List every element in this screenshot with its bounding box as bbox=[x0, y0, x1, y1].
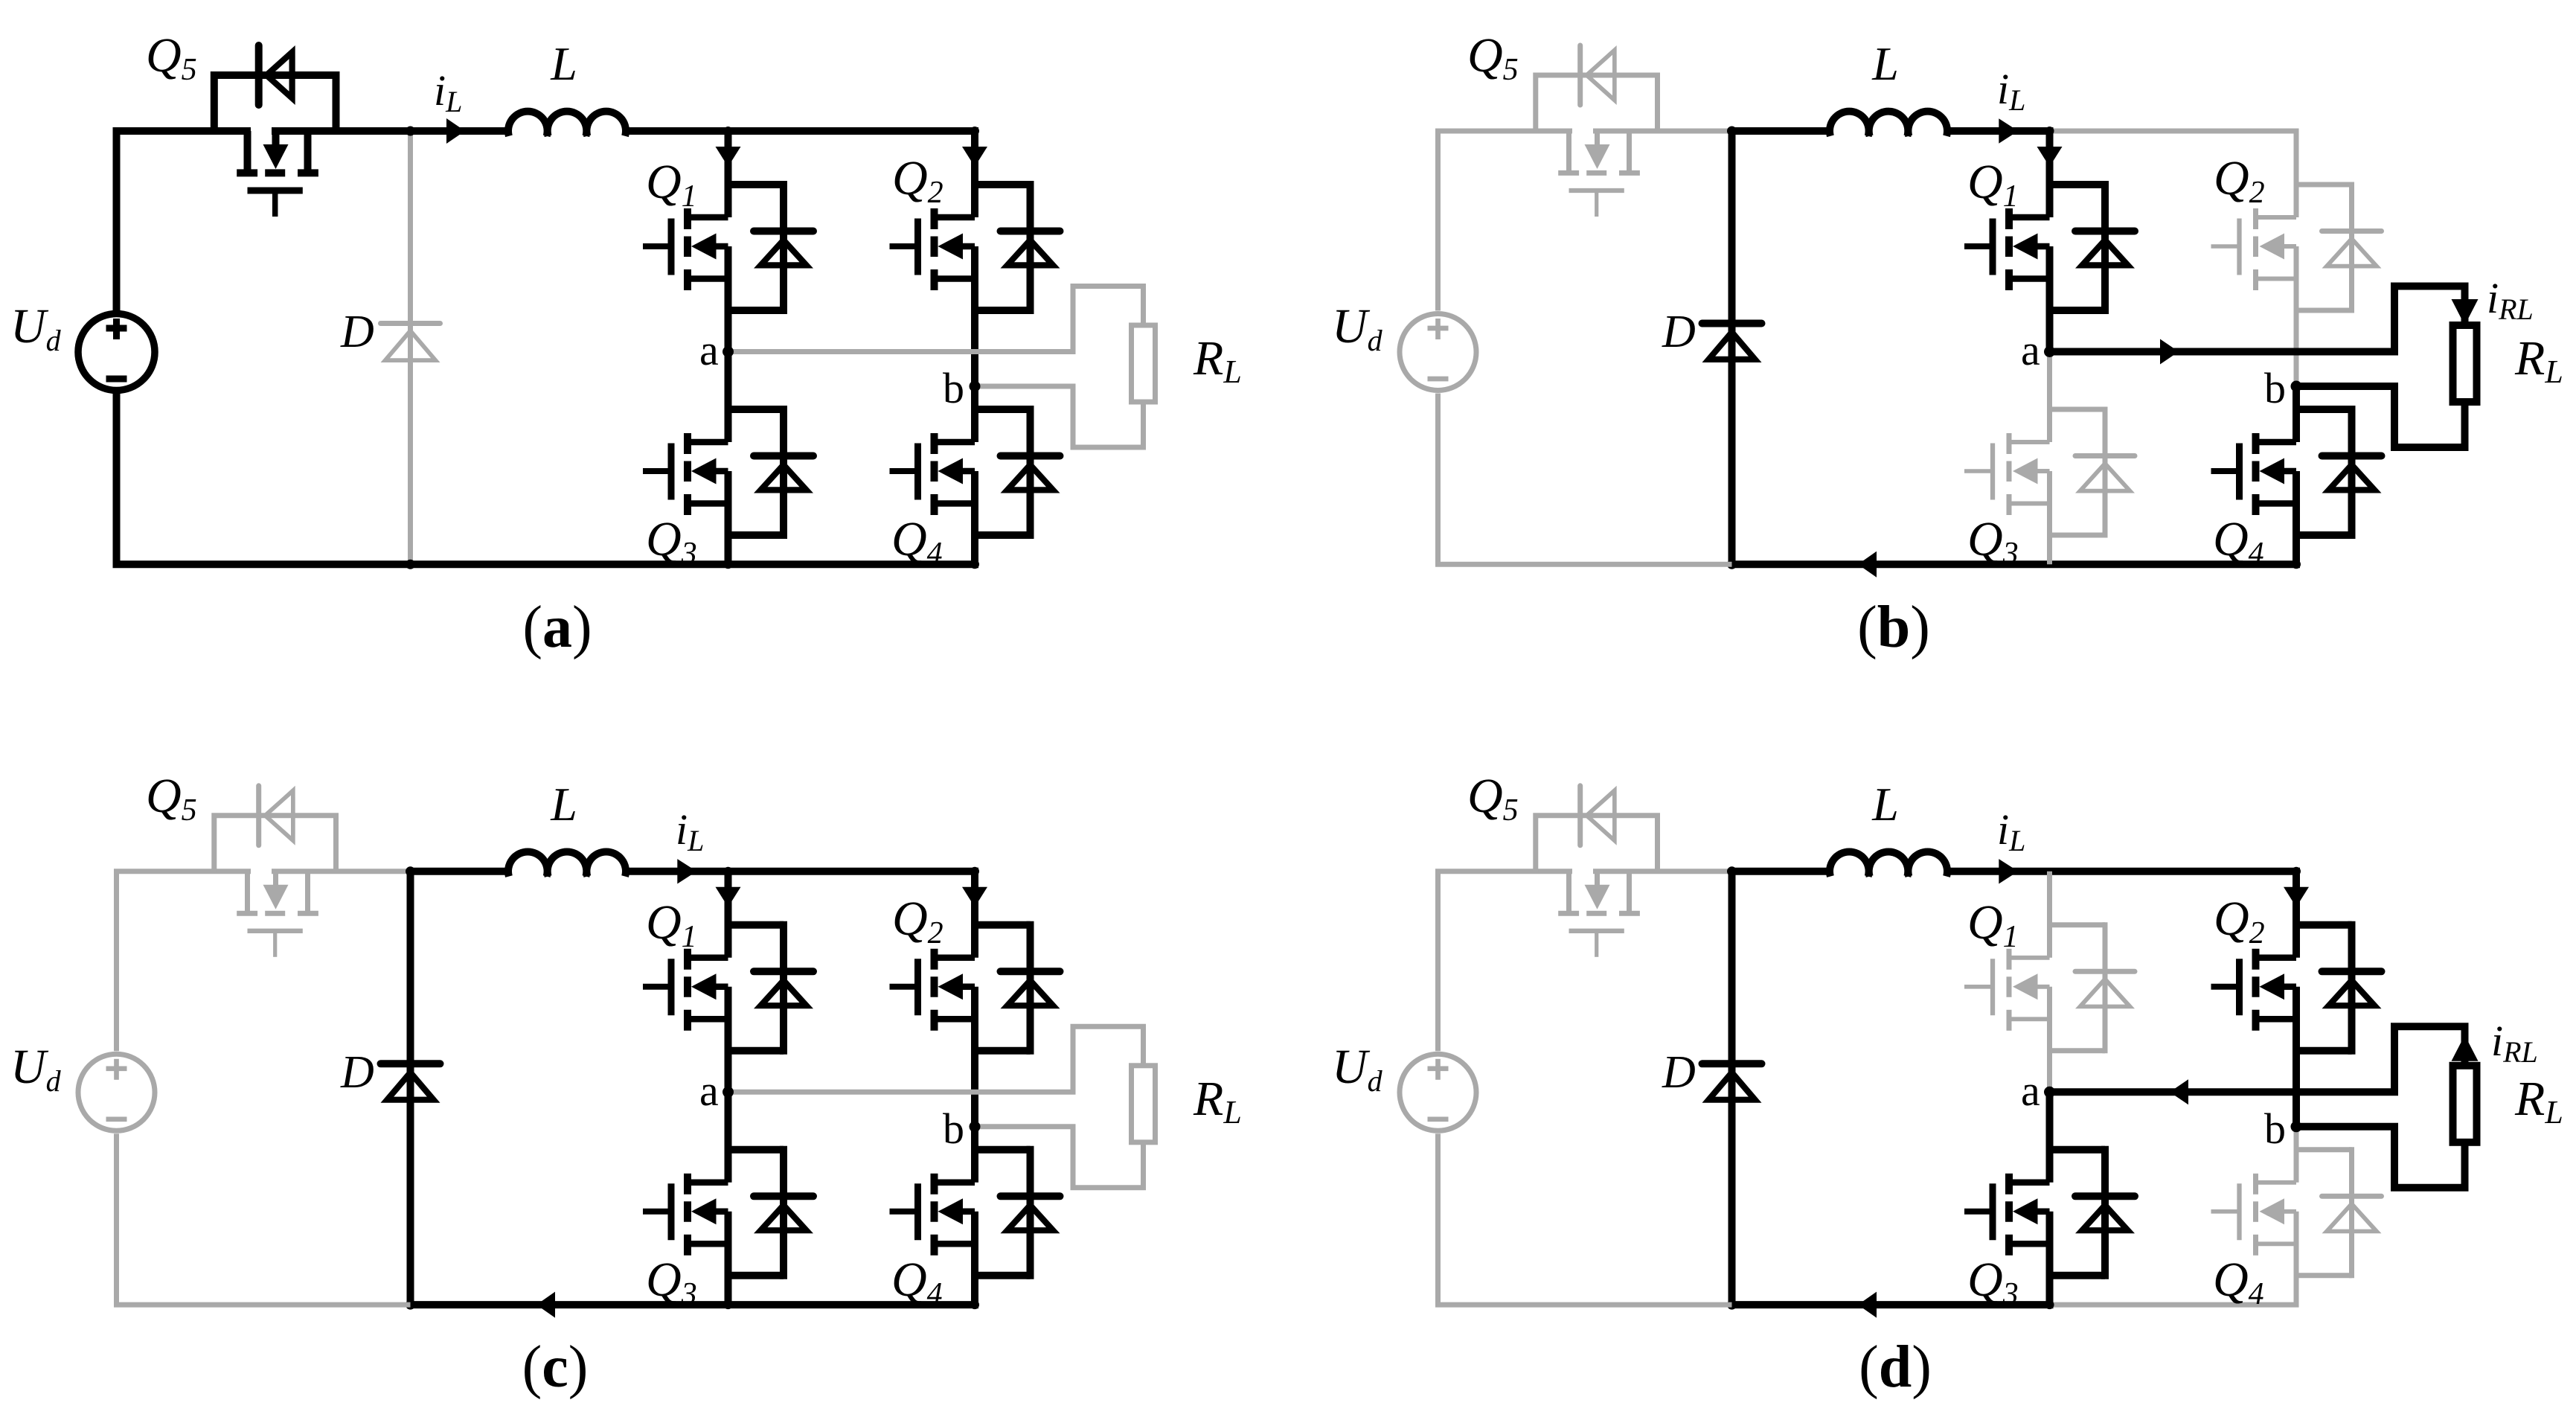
body diode of Q4 b bbox=[2296, 406, 2382, 539]
junction node at D bottom b bbox=[1727, 560, 1737, 569]
wire leg B source a bbox=[971, 386, 978, 564]
junction leg top a bbox=[970, 127, 979, 135]
body diode of Q4 d bbox=[2296, 1147, 2382, 1278]
wire top D to L b bbox=[1732, 127, 1832, 135]
transistor Q2 a bbox=[890, 208, 975, 290]
body diode of Q1 b bbox=[2050, 181, 2136, 314]
transistor Q4 c bbox=[890, 1174, 975, 1256]
junction node at D bottom a bbox=[406, 560, 415, 569]
wire bottom rail middle a bbox=[411, 560, 728, 568]
wire top D to L c bbox=[411, 868, 510, 875]
body diode of Q3 d bbox=[2050, 1146, 2136, 1279]
transistor Q5 a bbox=[237, 131, 318, 217]
transistor Q1 d bbox=[1964, 949, 2050, 1031]
junction leg bottom c bbox=[724, 1300, 733, 1309]
transistor Q2 c bbox=[890, 949, 975, 1031]
arrow on bottom rail b bbox=[1858, 551, 1877, 578]
wire left vertical bottom a bbox=[113, 394, 121, 565]
transistor Q1 a bbox=[643, 208, 728, 290]
body diode of Q4 c bbox=[975, 1146, 1060, 1279]
wire top L to leg A a bbox=[624, 127, 728, 135]
body diode of Q2 b bbox=[2296, 182, 2382, 313]
inductor L d bbox=[1830, 851, 1947, 876]
transistor Q4 d bbox=[2211, 1174, 2297, 1256]
svg-text:(a): (a) bbox=[522, 595, 592, 660]
wire leg B drain d bbox=[2293, 872, 2300, 1127]
arrow iRL b bbox=[2452, 299, 2479, 325]
arrow iL d bbox=[1999, 859, 2018, 883]
svg-text:D: D bbox=[1662, 1047, 1696, 1098]
arrow on a wire b bbox=[2160, 339, 2179, 365]
arrow on a wire d bbox=[2170, 1079, 2188, 1104]
svg-text:a: a bbox=[699, 1067, 719, 1115]
wire node b to RL a bbox=[975, 386, 1144, 447]
junction node at D top b bbox=[1727, 127, 1737, 136]
resistor RL a bbox=[1132, 325, 1156, 402]
arrow iRL d bbox=[2452, 1035, 2479, 1061]
arrow on bottom rail d bbox=[1858, 1292, 1877, 1318]
transistor Q3 a bbox=[643, 433, 728, 515]
wire node b to RL c bbox=[975, 1127, 1144, 1188]
svg-text:D: D bbox=[1662, 307, 1696, 357]
wire bottom rail right a bbox=[728, 560, 979, 568]
wire leg A source c bbox=[725, 1092, 732, 1305]
svg-text:L: L bbox=[550, 37, 577, 90]
transistor Q5 b bbox=[1558, 131, 1640, 217]
wire node a to RL c bbox=[728, 1026, 1144, 1092]
wire bottom rail left c bbox=[114, 1302, 411, 1308]
svg-text:a: a bbox=[699, 326, 719, 374]
arrow iL a bbox=[446, 118, 465, 144]
transistor Q3 b bbox=[1964, 433, 2050, 515]
junction leg top c bbox=[970, 867, 979, 876]
diode of Q5 d bbox=[1580, 786, 1617, 845]
node b c bbox=[970, 1121, 981, 1132]
wire leg B source c bbox=[971, 1127, 978, 1305]
wire bottom rail left a bbox=[113, 560, 411, 568]
wire top D to L a bbox=[411, 127, 510, 135]
wire left vertical bottom d bbox=[1435, 1133, 1441, 1305]
wire bottom rail right b bbox=[2050, 560, 2301, 568]
wire top left segment d bbox=[1435, 869, 1732, 874]
inductor L c bbox=[508, 851, 626, 876]
svg-text:b: b bbox=[2264, 364, 2286, 412]
body diode of Q1 d bbox=[2050, 922, 2136, 1053]
junction leg bottom a bbox=[970, 560, 979, 569]
resistor RL b bbox=[2453, 325, 2477, 402]
transistor Q4 a bbox=[890, 433, 975, 515]
resistor RL c bbox=[1132, 1066, 1156, 1142]
svg-text:b: b bbox=[943, 1104, 964, 1153]
diode D c bbox=[381, 872, 440, 1305]
diode D a bbox=[381, 131, 440, 564]
wire left vertical bottom b bbox=[1435, 394, 1441, 565]
arrow into Q1 b bbox=[2037, 147, 2063, 167]
wire leg A source d bbox=[2046, 1092, 2054, 1305]
wire leg B source b bbox=[2293, 386, 2300, 564]
junction leg top b bbox=[2045, 127, 2054, 135]
diode of Q5 c bbox=[259, 786, 295, 845]
voltage source Ud a bbox=[78, 314, 155, 391]
wire bottom rail middle b bbox=[1732, 560, 2050, 568]
arrow iL b bbox=[1999, 118, 2018, 143]
arrow on bottom rail c bbox=[536, 1292, 555, 1318]
junction leg top c bbox=[724, 867, 733, 876]
wire bottom rail middle d bbox=[1732, 1301, 2054, 1308]
wire leg B source d bbox=[2294, 1127, 2299, 1305]
wire left vertical bottom c bbox=[114, 1133, 119, 1305]
junction node at D bottom c bbox=[406, 1300, 415, 1310]
transistor Q5 c bbox=[237, 872, 318, 957]
wire left vertical top d bbox=[1435, 872, 1441, 1052]
wire leg A source b bbox=[2047, 352, 2052, 565]
wire leg B drain c bbox=[971, 872, 978, 1127]
junction node at D top d bbox=[1727, 866, 1737, 876]
transistor Q1 c bbox=[643, 949, 728, 1031]
body diode of Q2 d bbox=[2296, 921, 2382, 1055]
svg-text:b: b bbox=[2264, 1104, 2286, 1153]
node b d bbox=[2291, 1121, 2302, 1132]
arrow into Q2 d bbox=[2284, 887, 2309, 907]
wire top rail leg A to leg B d bbox=[2050, 868, 2301, 875]
wire bottom rail right d bbox=[2050, 1302, 2299, 1308]
arrow into Q1 a bbox=[716, 147, 741, 167]
wire top left segment a bbox=[113, 127, 411, 135]
transistor Q4 b bbox=[2211, 433, 2297, 515]
wire node a to RL d bbox=[2050, 1026, 2465, 1092]
wire leg A drain d bbox=[2047, 872, 2052, 1093]
junction node at D top c bbox=[406, 866, 415, 876]
wire leg B drain b bbox=[2294, 131, 2299, 386]
svg-text:D: D bbox=[340, 307, 374, 357]
body diode of Q2 c bbox=[975, 921, 1060, 1055]
wire node a to RL a bbox=[728, 287, 1144, 352]
wire leg A source a bbox=[725, 352, 732, 565]
wire node b to RL d bbox=[2296, 1127, 2465, 1188]
wire bottom rail left d bbox=[1435, 1302, 1732, 1308]
svg-text:(d): (d) bbox=[1859, 1334, 1932, 1400]
wire left vertical top b bbox=[1435, 131, 1441, 311]
wire bottom rail middle c bbox=[411, 1301, 728, 1308]
diode D b bbox=[1702, 131, 1762, 564]
transistor Q3 c bbox=[643, 1174, 728, 1256]
wire top L to leg A b bbox=[1946, 127, 2054, 135]
junction leg bottom d bbox=[2045, 1300, 2054, 1309]
junction node at D bottom d bbox=[1727, 1300, 1737, 1310]
junction leg bottom a bbox=[724, 560, 733, 569]
body diode of Q3 a bbox=[728, 406, 814, 539]
wire top rail leg A to leg B b bbox=[2050, 129, 2299, 134]
wire Q5 diode loop b bbox=[1536, 75, 1658, 131]
wire top D to L d bbox=[1732, 868, 1832, 875]
svg-text:a: a bbox=[2021, 326, 2040, 374]
body diode of Q1 c bbox=[728, 921, 814, 1055]
junction leg top d bbox=[2292, 867, 2301, 876]
diode D d bbox=[1702, 872, 1762, 1305]
diode of Q5 a bbox=[259, 45, 295, 105]
svg-text:a: a bbox=[2021, 1067, 2040, 1115]
body diode of Q4 a bbox=[975, 406, 1060, 539]
node b a bbox=[970, 381, 981, 392]
junction leg bottom c bbox=[970, 1300, 979, 1309]
node a a bbox=[723, 346, 734, 357]
wire Q5 diode loop d bbox=[1536, 816, 1658, 872]
wire node a to RL b bbox=[2050, 287, 2465, 352]
node a b bbox=[2044, 346, 2055, 357]
wire leg B drain a bbox=[971, 131, 978, 386]
body diode of Q3 b bbox=[2050, 407, 2136, 538]
diode of Q5 b bbox=[1580, 45, 1617, 105]
body diode of Q3 c bbox=[728, 1146, 814, 1279]
wire leg A drain b bbox=[2046, 131, 2054, 352]
voltage source Ud c bbox=[78, 1054, 155, 1131]
transistor Q2 b bbox=[2211, 208, 2297, 290]
svg-text:D: D bbox=[340, 1047, 374, 1098]
wire left vertical top a bbox=[113, 131, 121, 311]
arrow iL c bbox=[677, 859, 696, 883]
svg-text:L: L bbox=[1871, 778, 1899, 831]
arrow into Q1 c bbox=[716, 887, 741, 907]
junction node at D top a bbox=[406, 127, 415, 136]
node b b bbox=[2291, 381, 2302, 392]
wire top left segment b bbox=[1435, 129, 1732, 134]
arrow into Q2 a bbox=[962, 147, 987, 167]
wire bottom rail left b bbox=[1435, 562, 1732, 567]
body diode of Q1 a bbox=[728, 181, 814, 314]
svg-text:L: L bbox=[1871, 37, 1899, 90]
wire Q5 diode loop c bbox=[214, 816, 336, 872]
node a d bbox=[2044, 1087, 2055, 1098]
body diode of Q2 a bbox=[975, 181, 1060, 314]
arrow into Q2 c bbox=[962, 887, 987, 907]
wire top rail leg A to leg B c bbox=[728, 868, 979, 875]
wire left vertical top c bbox=[114, 872, 119, 1052]
wire leg A drain a bbox=[725, 131, 732, 352]
voltage source Ud d bbox=[1400, 1054, 1476, 1131]
wire top left segment c bbox=[114, 869, 411, 874]
wire top L to leg A c bbox=[624, 868, 728, 875]
transistor Q1 b bbox=[1964, 208, 2050, 290]
transistor Q5 d bbox=[1558, 872, 1640, 957]
voltage source Ud b bbox=[1400, 314, 1476, 391]
wire Q5 diode loop a bbox=[214, 75, 336, 131]
svg-text:b: b bbox=[943, 364, 964, 412]
wire top L to leg A d bbox=[1946, 868, 2050, 875]
inductor L b bbox=[1830, 112, 1947, 136]
inductor L a bbox=[508, 112, 626, 136]
node a c bbox=[723, 1087, 734, 1098]
resistor RL d bbox=[2453, 1066, 2477, 1142]
junction leg top a bbox=[724, 127, 733, 135]
wire node b to RL b bbox=[2296, 386, 2465, 447]
wire bottom rail right c bbox=[728, 1301, 979, 1308]
transistor Q3 d bbox=[1964, 1174, 2050, 1256]
junction leg bottom b bbox=[2292, 560, 2301, 569]
wire leg A drain c bbox=[725, 872, 732, 1093]
svg-text:L: L bbox=[550, 778, 577, 831]
wire top rail leg A to leg B a bbox=[728, 127, 979, 135]
transistor Q2 d bbox=[2211, 949, 2297, 1031]
svg-text:(b): (b) bbox=[1857, 595, 1930, 660]
svg-text:(c): (c) bbox=[522, 1334, 589, 1400]
